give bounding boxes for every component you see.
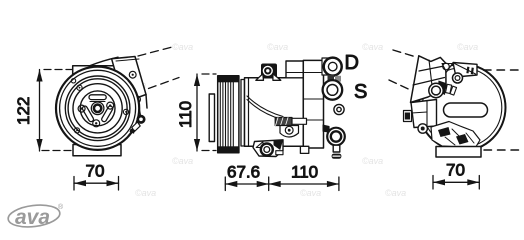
dimension 67.6 and 110 bottom [225, 177, 339, 191]
dashed leader bottom-right [484, 149, 523, 151]
clutch hole bottom [93, 120, 100, 127]
wire harness [247, 96, 283, 120]
svg-text:®: ® [58, 203, 64, 211]
bottom base [436, 147, 481, 158]
watermarks [77, 42, 478, 198]
rim bolt lower-left [74, 128, 79, 133]
dashed leader top-right [484, 69, 524, 71]
dimension 70 right [433, 176, 479, 190]
svg-text:67.6: 67.6 [227, 163, 260, 182]
dimension 110 line [194, 74, 200, 151]
rim bolt upper-left [77, 85, 82, 90]
svg-text:©ava: ©ava [172, 156, 193, 166]
svg-text:S: S [354, 81, 367, 103]
body inner circle [422, 68, 502, 148]
plate bolt 2 [134, 96, 141, 103]
mounting foot block [411, 100, 437, 128]
dimension 122 line [36, 70, 42, 152]
clutch hole left [78, 105, 85, 112]
pulley top flange band [218, 76, 239, 83]
pulley bottom flange band [218, 146, 239, 153]
dark marks left of eye [323, 125, 331, 134]
grommet boss [280, 126, 299, 138]
mounting eye bottom [327, 128, 345, 146]
dimension 122 extension dash top [44, 69, 72, 71]
ava logo [7, 202, 64, 229]
D port boss [322, 58, 331, 75]
fitting between ports [328, 75, 342, 82]
hub [91, 102, 104, 115]
mounting flange (tilted) [411, 56, 447, 103]
pulley (side) body [218, 76, 239, 153]
eye stem [333, 145, 340, 152]
clutch ring outer [68, 79, 127, 138]
side fitting right [130, 104, 145, 134]
svg-text:©ava: ©ava [362, 156, 383, 166]
svg-text:©ava: ©ava [172, 42, 193, 52]
svg-text:110: 110 [176, 101, 195, 128]
tilted mounting plate [112, 57, 147, 109]
pulley face circle [65, 76, 130, 141]
clutch ring inner [73, 84, 122, 133]
dimension 110 extension dash bottom [202, 150, 216, 152]
svg-text:D: D [345, 52, 359, 74]
svg-text:©ava: ©ava [135, 188, 156, 198]
plate bolt 1 [129, 71, 136, 78]
stadium slot [444, 103, 488, 117]
flange beak detail [442, 63, 453, 72]
clutch slot lower-left [101, 105, 114, 122]
base foot [73, 145, 121, 156]
left tab [404, 111, 412, 122]
svg-text:70: 70 [446, 161, 465, 180]
clutch slot top [89, 95, 106, 100]
clutch hole upper-right [107, 102, 114, 109]
pulley ribs [220, 82, 233, 146]
svg-text:70: 70 [86, 162, 105, 181]
discharge port D [324, 58, 342, 76]
dashed leader upper-left [393, 50, 416, 57]
clutch plate circle [80, 91, 115, 126]
pulley outer rim [56, 67, 139, 150]
svg-text:©ava: ©ava [267, 42, 288, 52]
small port [334, 104, 344, 114]
svg-text:ava: ava [15, 206, 50, 229]
upper bolt boss [429, 83, 443, 97]
mounting bracket top [73, 57, 121, 78]
dark wedge below beak [438, 81, 447, 96]
svg-text:©ava: ©ava [362, 42, 383, 52]
rivet top-left [71, 79, 75, 83]
bottom dark cluster [431, 122, 480, 151]
top mounting ear [256, 64, 281, 81]
svg-text:©ava: ©ava [385, 188, 406, 198]
head upper-left block [286, 61, 303, 78]
bolt circle below panel [453, 73, 463, 83]
rim bolt right [123, 109, 128, 114]
clutch plate (side) [209, 94, 214, 142]
dashed leader right [149, 78, 180, 89]
svg-text:110: 110 [291, 163, 318, 182]
dimension 122 extension dash bottom [42, 150, 73, 152]
connector block [275, 118, 306, 126]
lower-left bolt [418, 124, 427, 133]
dashed leader upper right [138, 47, 174, 57]
bottom tab [300, 146, 308, 153]
clutch slot lower-right [82, 105, 95, 122]
svg-text:©ava: ©ava [300, 188, 321, 198]
small boxes right of wedge [445, 84, 456, 95]
body circle [419, 64, 506, 151]
svg-text:©ava: ©ava [457, 42, 478, 52]
top panel [453, 63, 477, 78]
dashed leader left [389, 80, 410, 90]
dimension 110 extension dash top [202, 73, 216, 75]
bottom-left ear [253, 140, 283, 157]
svg-text:122: 122 [14, 97, 33, 125]
body front plate [241, 80, 245, 147]
bolt under eye [332, 154, 342, 159]
dimension 70 left [74, 177, 119, 191]
rear head block [303, 60, 323, 148]
compressor body [245, 78, 304, 146]
suction port S [323, 80, 343, 100]
pulley rim inner circle [60, 70, 136, 146]
